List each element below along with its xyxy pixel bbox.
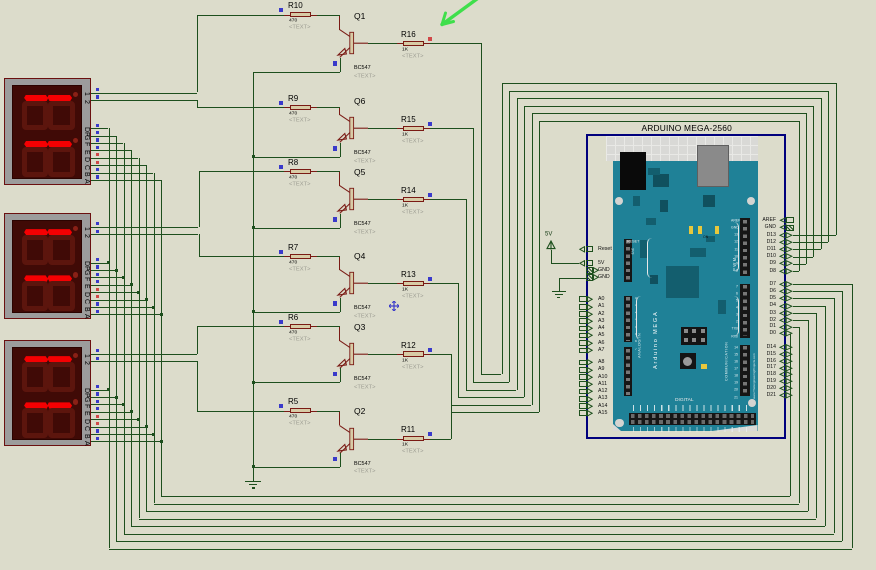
marker square near R14 (428, 193, 432, 197)
pin D18 (779, 371, 793, 378)
pin GND (right) (779, 224, 787, 231)
mounting holes (615, 197, 624, 206)
marker square near R12 (428, 348, 432, 352)
wire segment-bus net D : displays to Arduino D3 (91, 158, 138, 159)
marker square near R16 (428, 37, 432, 41)
pin A8 (579, 360, 587, 366)
pin A4 (579, 326, 587, 332)
resistor R16 (1K) (397, 43, 403, 44)
pin A14 (579, 403, 587, 409)
wire base of Q6 (317, 107, 340, 108)
green mouse cursor arrow (434, 0, 486, 32)
resistor R12 (1K) (397, 354, 403, 355)
pin A3 (579, 318, 587, 324)
wire DS3 pin1 to R6 (91, 354, 197, 355)
wire DS2 pin2 to R7 (91, 234, 198, 235)
marker square near R13 (428, 277, 432, 281)
wire emitter Q5 to ground rail (340, 214, 341, 228)
pin A5 (579, 333, 587, 339)
pin D14 (779, 344, 793, 351)
marker square near R15 (428, 122, 432, 126)
pin D8 (779, 268, 793, 275)
pin D15 (779, 351, 793, 358)
wire common emitter ground rail (253, 72, 254, 481)
blue marker near R5 (279, 404, 283, 408)
power 5V symbol (545, 231, 552, 237)
ground symbol (rail) (245, 481, 261, 482)
wire segment-bus net DP : displays to Arduino D7 (91, 128, 108, 129)
blue marker near Q1 emitter (333, 61, 337, 65)
pin D17 (779, 365, 793, 372)
ISP header (681, 327, 707, 345)
resistor R6 (470) (284, 326, 290, 327)
7-segment dual display DS2 (4, 213, 91, 320)
junction emitter rail Q6 (252, 155, 255, 158)
pin A7 (579, 348, 587, 354)
wire emitter Q3 to ground rail (340, 368, 341, 382)
pin D16 (779, 358, 793, 365)
wire base of Q3 (317, 326, 340, 327)
pin A2 (579, 311, 587, 317)
wire emitter Q6 to ground rail (340, 143, 341, 157)
wire DS3 pin2 to R5 (91, 361, 197, 362)
wire base of Q4 (317, 256, 340, 257)
LEDs (689, 226, 694, 234)
pin D1 (779, 324, 793, 331)
pin A12 (579, 389, 587, 395)
wire collector Q3 to R12 (368, 354, 397, 355)
wire collector net R15 to Arduino D12 (430, 128, 474, 129)
wire emitter Q2 to ground rail (340, 453, 341, 467)
wire collector Q4 to R13 (368, 283, 397, 284)
resistor R14 (1K) (397, 199, 403, 200)
pin D13 (779, 232, 793, 239)
resistor R8 (470) (284, 171, 290, 172)
pin A10 (579, 374, 587, 380)
Arduino Mega-2560 module U1 (586, 134, 786, 439)
wire base of Q5 (317, 171, 340, 172)
wire GND to Arduino pin (559, 278, 586, 279)
transistor Q6 (BC547) (339, 107, 340, 115)
wire segment-bus net A : displays to Arduino D0 (91, 180, 161, 181)
wire emitter Q1 to ground rail (340, 58, 341, 72)
power jack (620, 152, 646, 190)
pin D0 (779, 330, 793, 337)
blue marker near Q6 emitter (333, 146, 337, 150)
wire collector net R14 to Arduino D11 (430, 199, 466, 200)
pin D2 (779, 317, 793, 324)
pin D7 (779, 281, 793, 288)
wire collector Q1 to R16 (368, 43, 397, 44)
resistor R11 (1K) (397, 439, 403, 440)
pin D10 (779, 253, 793, 260)
pin D6 (779, 288, 793, 295)
wire DS1 pin1 to R10 (91, 93, 197, 94)
wire base of Q2 (317, 411, 340, 412)
pin D4 (779, 303, 793, 310)
wire collector Q5 to R14 (368, 199, 397, 200)
ICs and parts on board (653, 174, 669, 188)
transistor Q1 (BC547) (339, 15, 340, 30)
transistor Q5 (BC547) (339, 171, 340, 185)
wire collector Q6 to R15 (368, 128, 397, 129)
pin A13 (579, 396, 587, 402)
pin D20 (779, 385, 793, 392)
USB connector (697, 145, 729, 187)
pin D19 (779, 378, 793, 385)
wire segment-bus net C : displays to Arduino D2 (91, 165, 146, 166)
resistor R5 (470) (284, 411, 290, 412)
resistor R13 (1K) (397, 283, 403, 284)
reset button (680, 353, 696, 369)
pin A11 (579, 381, 587, 387)
pin AREF (779, 217, 787, 224)
wire collector net R13 to Arduino D10 (430, 283, 459, 284)
resistor R10 (470) (284, 15, 290, 16)
pin A9 (579, 367, 587, 373)
transistor Q3 (BC547) (339, 326, 340, 340)
wire segment-bus net E : displays to Arduino D4 (91, 150, 131, 151)
pin header strips (624, 239, 633, 283)
transistor Q4 (BC547) (339, 256, 340, 269)
display DS1 pin marker squares (96, 88, 99, 91)
blue marker near R7 (279, 250, 283, 254)
7-segment dual display DS3 (4, 340, 91, 447)
pin D11 (779, 246, 793, 253)
pin GND (586, 267, 593, 273)
blue marker near R8 (279, 165, 283, 169)
junction emitter rail Q4 (252, 310, 255, 313)
pin 5V (579, 260, 585, 267)
pin D21 (779, 392, 793, 399)
resistor R15 (1K) (397, 128, 403, 129)
wire segment-bus net G : displays to Arduino D6 (91, 136, 116, 137)
pin A1 (579, 304, 587, 310)
wire collector net R16 to Arduino D13 (430, 43, 481, 44)
transistor Q2 (BC547) (339, 411, 340, 425)
pin D12 (779, 239, 793, 246)
blue marker near R10 (279, 8, 283, 12)
pin GND (586, 274, 593, 280)
junction emitter rail Q5 (252, 226, 255, 229)
wire segment-bus net F : displays to Arduino D5 (91, 143, 123, 144)
resistor R9 (470) (284, 107, 290, 108)
blue marker near Q4 emitter (333, 301, 337, 305)
wire segment-bus net B : displays to Arduino D1 (91, 173, 153, 174)
7-segment dual display DS1 (4, 78, 91, 185)
marker square near R11 (428, 432, 432, 436)
wire DS1 pin2 to R9 (91, 100, 197, 101)
Arduino PCB board (606, 136, 758, 162)
wire collector net R12 to Arduino D9 (430, 354, 451, 355)
blue marker near R9 (279, 101, 283, 105)
ground symbol (Arduino) (552, 291, 566, 292)
pin D5 (779, 295, 793, 302)
wire DS2 pin1 to R8 (91, 227, 198, 228)
blue marker near Q3 emitter (333, 372, 337, 376)
pin D3 (779, 310, 793, 317)
display DS2 pin marker squares (96, 222, 99, 225)
pin A0 (579, 296, 587, 302)
pin D9 (779, 260, 793, 267)
pin A6 (579, 340, 587, 346)
blue marker near Q2 emitter (333, 457, 337, 461)
wire emitter Q4 to ground rail (340, 298, 341, 312)
display DS3 pin marker squares (96, 349, 99, 352)
junction emitter rail Q3 (252, 381, 255, 384)
cursor crosshair marker (389, 301, 399, 311)
pin Reset (579, 246, 585, 253)
pin A15 (579, 410, 587, 416)
wire collector Q2 to R11 (368, 439, 397, 440)
wire base of Q1 (317, 15, 340, 16)
resistor R7 (470) (284, 256, 290, 257)
wire collector net R11 to Arduino D8 (430, 439, 451, 440)
silkscreen labels (627, 240, 639, 244)
wire 5V to Arduino pin (551, 250, 552, 264)
blue marker near Q5 emitter (333, 217, 337, 221)
blue marker near R6 (279, 320, 283, 324)
junction emitter rail Q2 (252, 465, 255, 468)
